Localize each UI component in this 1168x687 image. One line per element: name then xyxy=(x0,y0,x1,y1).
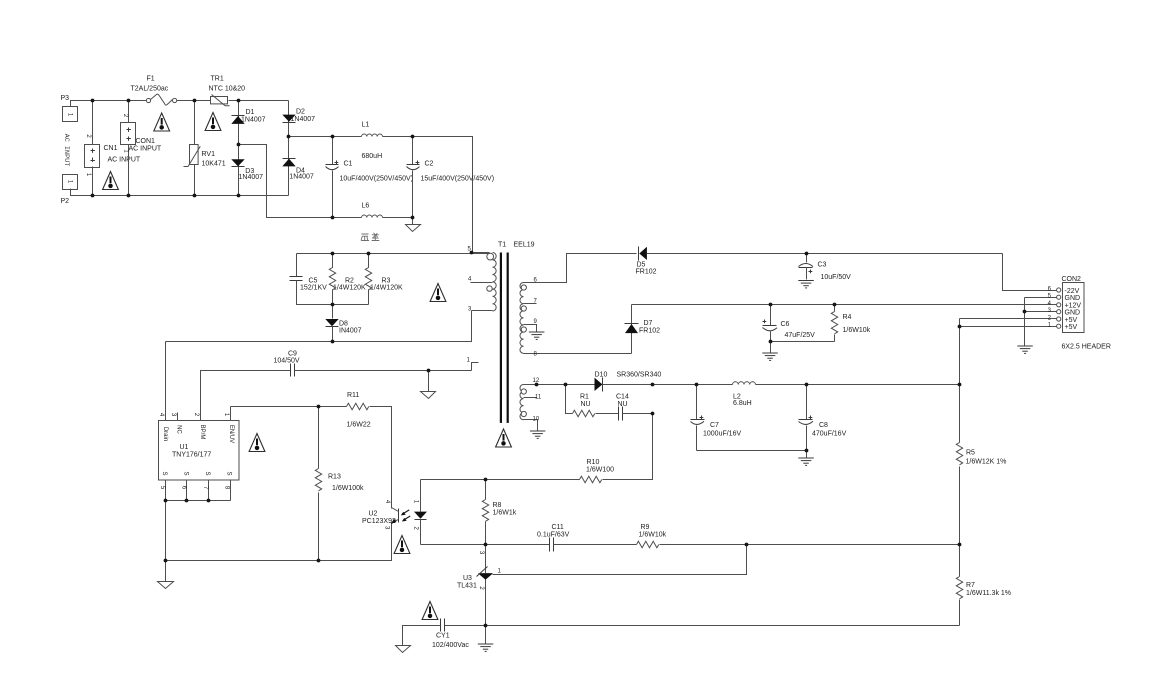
node dots CON2 xyxy=(958,325,962,329)
diode D1 1N4007 xyxy=(232,115,245,117)
svg-text:SR360/SR340: SR360/SR340 xyxy=(617,371,662,378)
warning below CN1 xyxy=(103,172,119,190)
svg-text:C6: C6 xyxy=(781,321,790,328)
ground earth pin10 xyxy=(530,431,546,438)
svg-text:AC INPUT: AC INPUT xyxy=(129,146,162,153)
svg-text:104/50V: 104/50V xyxy=(274,358,300,365)
wire D2/D4 branch xyxy=(288,101,290,196)
svg-text:1/4W120K: 1/4W120K xyxy=(333,285,366,292)
svg-text:S: S xyxy=(204,471,210,475)
pin 4 tap xyxy=(471,282,493,284)
svg-text:TL431: TL431 xyxy=(457,583,477,590)
capacitor C5 xyxy=(296,254,298,277)
svg-text:RV1: RV1 xyxy=(202,151,216,158)
svg-text:6.8uH: 6.8uH xyxy=(733,400,752,407)
primary winding xyxy=(493,253,497,312)
pin 2 xyxy=(1057,317,1061,321)
ground triangle (DC-) xyxy=(412,218,414,225)
capacitor C9 xyxy=(201,371,291,421)
capacitor C14 NU xyxy=(618,407,620,421)
svg-text:+12V: +12V xyxy=(1065,302,1082,309)
wire fb rail xyxy=(421,544,550,546)
node dots bulk xyxy=(331,135,335,139)
svg-text:C1: C1 xyxy=(344,161,353,168)
capacitor C8 xyxy=(806,385,808,420)
svg-text:U1: U1 xyxy=(180,444,189,451)
pin 12 tap xyxy=(524,384,566,386)
wire to CON2 pin6 xyxy=(1003,254,1057,291)
svg-text:TNY176/177: TNY176/177 xyxy=(172,452,211,459)
svg-text:1/6W100: 1/6W100 xyxy=(586,467,614,474)
ground triangle C9 net xyxy=(428,371,430,392)
resistor R9 xyxy=(637,541,659,547)
ground triangle primary xyxy=(158,582,174,589)
pins 5-8 S stubs xyxy=(165,481,167,501)
svg-text:0.1uF/63V: 0.1uF/63V xyxy=(537,532,570,539)
wire CON2 gnd xyxy=(1024,298,1026,346)
regulator U3 TL431 xyxy=(485,545,487,574)
svg-text:NU: NU xyxy=(618,401,628,408)
svg-text:F1: F1 xyxy=(147,76,155,83)
inductor L1 xyxy=(362,134,383,136)
wire C6/R4 bottom xyxy=(771,341,835,343)
thermistor TR1 xyxy=(211,97,228,104)
svg-text:1/6W22: 1/6W22 xyxy=(347,422,371,429)
ground earth C3 xyxy=(798,281,814,288)
pin 1 EN/UV xyxy=(230,407,232,421)
capacitor C11 xyxy=(549,538,551,552)
warning near CY1 xyxy=(422,602,438,620)
pin 6 xyxy=(1057,288,1061,292)
diode D8 IN4007 xyxy=(332,305,334,319)
resistor R13 xyxy=(318,407,320,469)
svg-text:1/6W12K 1%: 1/6W12K 1% xyxy=(966,459,1007,466)
inductor L2 xyxy=(733,382,756,385)
wire top AC rail right of fuse xyxy=(177,100,211,102)
node dots snubber xyxy=(331,252,335,256)
svg-text:C14: C14 xyxy=(616,394,629,401)
pin 3 NC xyxy=(177,413,179,421)
svg-text:TR1: TR1 xyxy=(211,76,224,83)
svg-text:1/6W10k: 1/6W10k xyxy=(843,327,871,334)
wire EN net xyxy=(231,406,347,408)
svg-text:1N4007: 1N4007 xyxy=(289,174,314,181)
svg-text:+5V: +5V xyxy=(1065,324,1078,331)
resistor R11 xyxy=(347,403,369,409)
pin 5 xyxy=(1057,295,1061,299)
diode D5 FR102 xyxy=(639,247,647,260)
svg-text:R9: R9 xyxy=(641,524,650,531)
ground earth CON2 xyxy=(1017,346,1033,353)
svg-text:R2: R2 xyxy=(345,278,354,285)
resistor R10 xyxy=(580,476,602,482)
svg-text:NTC 10&20: NTC 10&20 xyxy=(209,86,246,93)
svg-text:U2: U2 xyxy=(369,510,378,517)
svg-text:U3: U3 xyxy=(463,575,472,582)
svg-text:PC123X92: PC123X92 xyxy=(362,518,396,525)
svg-text:R11: R11 xyxy=(347,392,359,399)
wire D1/D3 branch xyxy=(238,101,240,196)
transistor side xyxy=(398,509,400,523)
pin 1 stub near C9 net xyxy=(472,363,479,371)
svg-text:1/6W100k: 1/6W100k xyxy=(332,485,364,492)
LED side xyxy=(420,480,422,512)
svg-text:S: S xyxy=(161,471,167,475)
svg-text:15uF/400V(250V/450V): 15uF/400V(250V/450V) xyxy=(421,176,495,183)
capacitor C6 xyxy=(770,305,772,326)
wire snubber top xyxy=(297,253,490,255)
wire C7/C8 bottom xyxy=(697,450,807,452)
svg-text:1N4007: 1N4007 xyxy=(239,174,264,181)
svg-text:C7: C7 xyxy=(710,422,719,429)
fuse F1 xyxy=(146,98,150,102)
pin 3 tap xyxy=(472,310,493,312)
node dots -22V/+12V xyxy=(805,252,809,256)
wire DC minus link xyxy=(239,145,362,218)
svg-text:R10: R10 xyxy=(587,459,600,466)
wire top AC rail xyxy=(71,101,147,107)
svg-text:D10: D10 xyxy=(595,371,608,378)
svg-text:47uF/25V: 47uF/25V xyxy=(785,332,816,339)
svg-text:10uF/50V: 10uF/50V xyxy=(821,274,852,281)
secondary lower winding xyxy=(520,385,524,420)
svg-text:R8: R8 xyxy=(493,502,502,509)
pin 4 xyxy=(1057,303,1061,307)
warning near F1 xyxy=(154,113,170,131)
wire +5V drop xyxy=(959,319,961,385)
ground earth C8 xyxy=(798,458,814,465)
diode D10 SR360/SR340 xyxy=(566,384,595,386)
pin 11 tap xyxy=(524,397,537,399)
wire source bus xyxy=(166,500,231,502)
svg-text:1/4W120K: 1/4W120K xyxy=(370,285,403,292)
warning near U1 xyxy=(249,434,265,452)
port P3 xyxy=(63,107,78,122)
pin 4 Drain xyxy=(165,342,167,421)
svg-text:1000uF/16V: 1000uF/16V xyxy=(703,431,741,438)
capacitor CY1 xyxy=(403,626,441,646)
svg-text:152/1KV: 152/1KV xyxy=(300,285,327,292)
label ferrite bead (CJK drawn) xyxy=(361,233,379,241)
svg-text:CY1: CY1 xyxy=(436,633,450,640)
svg-text:C2: C2 xyxy=(425,161,434,168)
capacitor C3 xyxy=(806,254,808,263)
svg-text:1/6W1k: 1/6W1k xyxy=(493,510,517,517)
svg-text:AC INPUT: AC INPUT xyxy=(108,157,141,164)
svg-text:L6: L6 xyxy=(362,203,370,210)
wire -22V rail xyxy=(524,254,637,283)
varistor RV1 xyxy=(194,101,196,145)
svg-text:IN4007: IN4007 xyxy=(339,328,362,335)
ground triangle CY1 xyxy=(396,646,411,653)
connector CON1 xyxy=(128,101,130,123)
wire DC plus rail xyxy=(289,136,362,138)
pin 10 tap xyxy=(524,420,538,431)
svg-text:R13: R13 xyxy=(328,474,341,481)
svg-text:EN/UV: EN/UV xyxy=(228,425,234,443)
pin 6 tap xyxy=(524,282,567,284)
svg-text:NU: NU xyxy=(581,401,591,408)
svg-text:BP/M: BP/M xyxy=(199,425,205,440)
pin 7 tap xyxy=(524,303,537,305)
warning near TR1 xyxy=(205,113,221,131)
svg-text:C3: C3 xyxy=(818,261,827,268)
svg-text:AC INPUT: AC INPUT xyxy=(62,134,70,167)
warning below opto xyxy=(394,536,410,554)
svg-text:1N4007: 1N4007 xyxy=(291,116,316,123)
svg-text:6X2.5 HEADER: 6X2.5 HEADER xyxy=(1062,344,1111,351)
wire primary gnd rail xyxy=(166,523,392,561)
pin 8 tap xyxy=(524,353,632,355)
warning below core xyxy=(496,429,512,447)
pin 2 BP/M xyxy=(200,371,202,421)
svg-text:10uF/400V(250V/450V): 10uF/400V(250V/450V) xyxy=(340,176,414,183)
connector CN1 xyxy=(92,101,94,145)
svg-text:R4: R4 xyxy=(843,314,852,321)
svg-text:+5V: +5V xyxy=(1065,317,1078,324)
diode D7 FR102 xyxy=(631,305,633,354)
ground earth C6 xyxy=(762,353,778,360)
resistor R8 xyxy=(485,480,487,500)
svg-text:D8: D8 xyxy=(339,321,348,328)
svg-text:R7: R7 xyxy=(966,582,975,589)
svg-text:10: 10 xyxy=(533,417,540,423)
capacitor C2 xyxy=(412,137,414,165)
secondary upper winding xyxy=(520,283,524,354)
node dots AC xyxy=(91,99,95,103)
svg-text:1/6W10k: 1/6W10k xyxy=(639,532,667,539)
svg-text:EEL19: EEL19 xyxy=(514,242,535,249)
svg-text:S: S xyxy=(226,471,232,475)
svg-text:L1: L1 xyxy=(362,122,370,129)
svg-text:FR102: FR102 xyxy=(636,269,657,276)
svg-text:T2AL/250ac: T2AL/250ac xyxy=(131,86,169,93)
resistor R4 xyxy=(834,305,836,312)
wire +12V rail xyxy=(632,304,1057,306)
svg-text:11: 11 xyxy=(535,395,542,401)
inductor L6 xyxy=(362,215,383,217)
svg-text:680uH: 680uH xyxy=(362,153,383,160)
svg-text:102/400Vac: 102/400Vac xyxy=(432,642,469,649)
pin 3 xyxy=(1057,310,1061,314)
wire drain net xyxy=(166,311,472,342)
resistor R1 NU xyxy=(566,385,573,414)
svg-text:R3: R3 xyxy=(382,278,391,285)
diode D3 1N4007 xyxy=(231,159,244,166)
svg-text:-22V: -22V xyxy=(1065,288,1080,295)
svg-text:C11: C11 xyxy=(552,524,564,531)
diode D2 1N4007 xyxy=(282,115,295,122)
svg-text:C8: C8 xyxy=(819,422,828,429)
pin 5 tap xyxy=(472,252,490,254)
svg-text:D2: D2 xyxy=(296,109,305,116)
diode D4 1N4007 xyxy=(283,158,296,160)
wire R10 rail xyxy=(421,479,580,481)
svg-text:R1: R1 xyxy=(580,394,589,401)
svg-text:T1: T1 xyxy=(498,242,506,249)
svg-text:GND: GND xyxy=(1065,295,1081,302)
svg-text:P2: P2 xyxy=(61,198,70,205)
node dots U1 xyxy=(164,499,168,503)
svg-text:R5: R5 xyxy=(966,450,975,457)
resistor R2 xyxy=(329,254,335,305)
svg-text:P3: P3 xyxy=(61,95,70,102)
svg-text:C9: C9 xyxy=(288,351,297,358)
svg-text:CON1: CON1 xyxy=(136,138,156,145)
svg-text:470uF/16V: 470uF/16V xyxy=(812,431,847,438)
svg-text:FR102: FR102 xyxy=(639,327,660,334)
warning near primary xyxy=(430,284,446,302)
port P2 xyxy=(63,175,78,190)
svg-text:1N4007: 1N4007 xyxy=(241,117,266,124)
core xyxy=(500,253,502,423)
node dots bias xyxy=(427,369,431,373)
svg-text:1/6W11.3k 1%: 1/6W11.3k 1% xyxy=(966,590,1011,597)
svg-text:Drain: Drain xyxy=(162,427,168,441)
ground earth U3 xyxy=(485,626,487,644)
resistor R5 xyxy=(959,385,961,443)
ground earth pin9 xyxy=(529,332,545,339)
svg-text:10K471: 10K471 xyxy=(202,161,226,168)
node dots +5V rail xyxy=(535,383,539,387)
resistor R7 xyxy=(959,545,961,577)
svg-text:GND: GND xyxy=(1065,310,1081,317)
svg-text:D5: D5 xyxy=(637,261,646,268)
capacitor C1 xyxy=(332,137,334,165)
svg-text:CON2: CON2 xyxy=(1062,276,1082,283)
svg-text:D1: D1 xyxy=(246,109,255,116)
svg-text:NC: NC xyxy=(176,425,182,434)
svg-text:D7: D7 xyxy=(644,320,653,327)
resistor R3 xyxy=(365,254,371,305)
svg-text:CN1: CN1 xyxy=(104,145,118,152)
svg-text:S: S xyxy=(182,471,188,475)
pin 9 tap xyxy=(524,325,537,332)
node dots feedback xyxy=(484,478,488,482)
light arrows xyxy=(401,510,410,522)
pin 1 xyxy=(1057,324,1061,328)
capacitor C7 xyxy=(696,385,698,420)
wire bottom AC rail xyxy=(71,189,289,196)
svg-text:C5: C5 xyxy=(309,278,318,285)
